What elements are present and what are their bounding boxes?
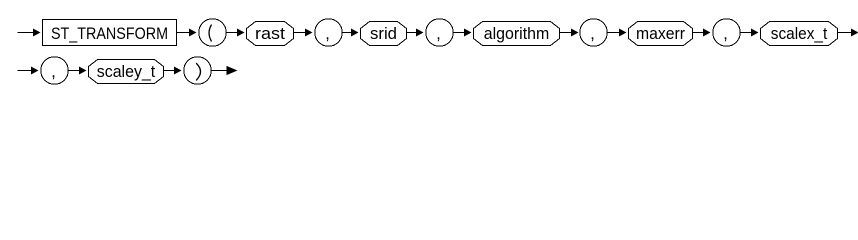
svg-text:,: , [436, 24, 441, 43]
svg-text:rast: rast [255, 24, 285, 43]
svg-text:,: , [325, 24, 330, 43]
svg-text:,: , [590, 24, 595, 43]
svg-text:scalex_t: scalex_t [771, 24, 828, 43]
svg-text:,: , [723, 24, 728, 43]
svg-text:algorithm: algorithm [484, 24, 550, 43]
svg-text:maxerr: maxerr [636, 24, 685, 43]
svg-text:srid: srid [370, 24, 397, 43]
svg-text:ST_TRANSFORM: ST_TRANSFORM [51, 24, 168, 43]
svg-text:scaley_t: scaley_t [97, 62, 156, 81]
svg-text:,: , [51, 62, 56, 81]
